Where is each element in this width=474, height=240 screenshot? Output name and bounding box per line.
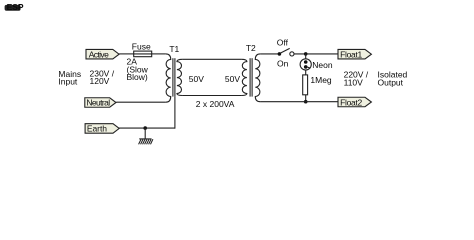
label 230V / 120V bbox=[90, 68, 115, 86]
wire screen to earth (core screen) bbox=[174, 97, 176, 129]
svg-text:Active: Active bbox=[89, 49, 109, 59]
wire resistor to bottom rail bbox=[305, 95, 307, 102]
transformer T2 secondary winding bbox=[255, 54, 260, 102]
label Mains Input bbox=[58, 69, 81, 87]
resistor R1 1Meg bbox=[303, 75, 308, 95]
ground symbol bbox=[139, 128, 153, 144]
transformer T1 core bbox=[172, 58, 174, 96]
transformer T2 core bbox=[249, 58, 251, 96]
svg-text:1Meg: 1Meg bbox=[310, 75, 332, 85]
svg-text:On: On bbox=[277, 59, 289, 69]
svg-text:Fuse: Fuse bbox=[132, 42, 151, 52]
svg-text:Input: Input bbox=[58, 77, 78, 87]
transformer T2 left winding 50V bbox=[241, 59, 247, 95]
switch SW1 pole bbox=[278, 52, 282, 56]
svg-text:Output: Output bbox=[378, 77, 404, 87]
transformer T1 primary winding bbox=[166, 54, 171, 102]
label 220V / 110V bbox=[344, 70, 369, 88]
svg-text:2 x 200VA: 2 x 200VA bbox=[196, 99, 235, 109]
svg-text:Neon: Neon bbox=[312, 60, 333, 70]
svg-text:ESP: ESP bbox=[7, 2, 24, 12]
port Neutral bbox=[85, 98, 116, 108]
neon lamp bbox=[300, 54, 311, 75]
svg-text:50V: 50V bbox=[225, 74, 240, 84]
wire switch to Float1 bbox=[294, 53, 338, 55]
wire Earth to screen bbox=[119, 127, 175, 129]
wire T1 sec top to T2 bbox=[182, 58, 241, 60]
svg-text:120V: 120V bbox=[90, 76, 110, 86]
wire Neutral to T1 primary bbox=[116, 101, 166, 103]
wire T2 sec top to switch bbox=[260, 53, 279, 55]
svg-text:Float2: Float2 bbox=[340, 97, 362, 107]
svg-text:Float1: Float1 bbox=[340, 50, 362, 60]
svg-text:Earth: Earth bbox=[87, 124, 107, 134]
wire Active to fuse bbox=[119, 53, 134, 55]
transformer T1 secondary winding 50V bbox=[177, 59, 183, 95]
port Float1 bbox=[338, 49, 371, 59]
port Active bbox=[86, 49, 119, 59]
wire T1 sec bottom to T2 bbox=[182, 95, 241, 97]
svg-text:110V: 110V bbox=[344, 77, 364, 87]
label 2A (Slow Blow) bbox=[127, 57, 149, 82]
label Isolated Output bbox=[378, 70, 408, 88]
junction switch/neon bbox=[304, 52, 308, 56]
svg-text:50V: 50V bbox=[189, 74, 204, 84]
junction earth/ground bbox=[143, 126, 147, 130]
wire T2 sec bottom to Float2 bbox=[260, 101, 338, 103]
ESP logo badge bbox=[5, 2, 24, 12]
port Float2 bbox=[338, 97, 371, 107]
svg-text:T2: T2 bbox=[246, 43, 256, 53]
switch lever bbox=[280, 48, 290, 53]
junction resistor/bottom rail bbox=[304, 100, 308, 104]
port Earth bbox=[85, 124, 119, 134]
svg-text:Neutral: Neutral bbox=[86, 98, 110, 108]
svg-text:T1: T1 bbox=[169, 44, 179, 54]
switch throw contact bbox=[290, 52, 294, 56]
fuse F1 2A bbox=[134, 51, 152, 57]
svg-text:Blow): Blow) bbox=[127, 72, 148, 82]
wire fuse to T1 bbox=[152, 53, 166, 55]
svg-text:Off: Off bbox=[277, 37, 289, 47]
